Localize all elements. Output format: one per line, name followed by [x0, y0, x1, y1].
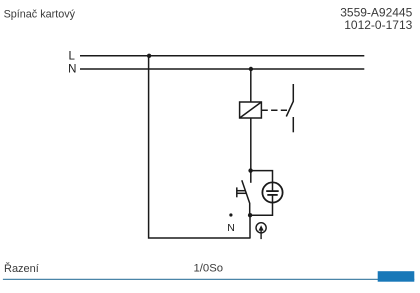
svg-text:N: N: [227, 222, 235, 234]
svg-text:1/0So: 1/0So: [194, 262, 224, 274]
svg-text:N: N: [68, 64, 76, 76]
svg-text:L: L: [68, 51, 75, 63]
svg-text:Řazení: Řazení: [4, 262, 39, 275]
svg-text:1012-0-1713: 1012-0-1713: [344, 18, 412, 32]
svg-text:Spínač kartový: Spínač kartový: [4, 8, 76, 20]
